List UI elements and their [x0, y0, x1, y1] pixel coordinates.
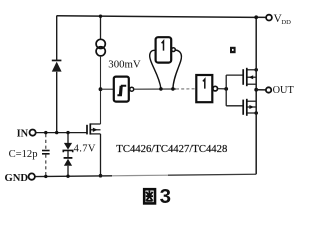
wire GND line	[35, 175, 112, 178]
svg-text:IN: IN	[17, 128, 29, 139]
svg-text:3: 3	[160, 185, 171, 206]
transistor Q2 PMOS output	[243, 68, 247, 86]
diode D1 (clamp to VDD, left rail)	[52, 60, 62, 72]
wire gate lead PMOS	[226, 74, 243, 76]
wire top VDD rail	[57, 16, 266, 18]
wire OUT stub	[256, 89, 266, 91]
wire Q1 source down to GND	[100, 134, 102, 176]
wire node A to schmitt input	[101, 88, 114, 90]
small square artifact	[230, 47, 236, 53]
node junction cap bottom	[44, 175, 47, 178]
svg-text:C=12p: C=12p	[9, 149, 38, 160]
node gate junction	[224, 87, 228, 91]
transistor Q1 input MOSFET	[87, 123, 90, 134]
diode D2 (series clamp)	[64, 151, 73, 176]
wire Q1 drain up to node A	[100, 89, 102, 124]
wire schmitt output to inverter U3 input	[134, 88, 176, 90]
inverter U3	[196, 75, 217, 102]
wire gate split vertical	[225, 75, 227, 106]
inverter U2 (box 1 with legs)	[150, 37, 182, 88]
node junction left rail	[55, 131, 58, 134]
current source I1	[100, 17, 102, 40]
node junction cap	[44, 131, 47, 134]
svg-text:GND: GND	[5, 173, 29, 184]
capacitor C 12p (dashed effective input cap)	[45, 134, 47, 176]
zener Z1 4.7V	[63, 133, 72, 153]
node VDD rail junction	[254, 15, 258, 19]
node junction diode bottom	[66, 175, 69, 178]
wire U3 output to gate node	[218, 88, 227, 90]
wire right rail	[255, 17, 257, 174]
wire gate lead NMOS	[226, 105, 243, 107]
op-amp U1 schmitt trigger	[114, 77, 134, 102]
wire left rail vertical	[56, 16, 58, 133]
svg-text:300mV: 300mV	[108, 58, 141, 70]
node junction diode chain	[66, 131, 69, 134]
svg-text:4.7V: 4.7V	[74, 143, 96, 154]
node GND terminal	[29, 173, 35, 179]
wire IN line	[35, 132, 87, 134]
node A junction (current source / Q1 drain / schmitt input)	[99, 87, 103, 91]
svg-text:TC4426/TC4427/TC4428: TC4426/TC4427/TC4428	[116, 143, 227, 155]
node VDD terminal	[266, 15, 272, 21]
node IN terminal	[29, 130, 35, 136]
transistor Q3 NMOS output	[243, 99, 247, 116]
svg-text:OUT: OUT	[273, 85, 295, 96]
node OUT terminal	[266, 87, 271, 92]
svg-text:DD: DD	[281, 19, 291, 26]
node PMOS drain on rail	[254, 68, 258, 72]
node NMOS source on rail	[254, 111, 258, 115]
node leg junctions on signal wire	[159, 87, 163, 91]
caption tu character box	[144, 189, 155, 203]
node OUT junction	[254, 88, 258, 92]
